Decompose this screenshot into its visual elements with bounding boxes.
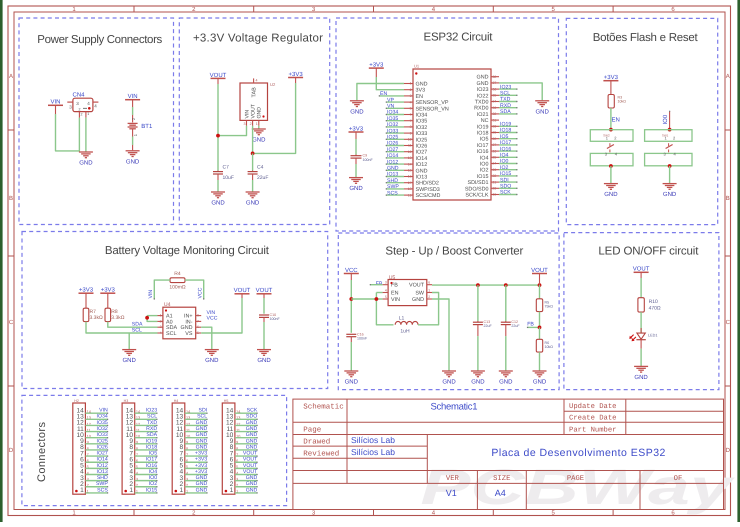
svg-text:GND: GND — [246, 444, 258, 450]
svg-text:GND: GND — [416, 168, 428, 174]
wire VOUT to R5 — [539, 285, 541, 299]
svg-text:D: D — [9, 447, 14, 454]
svg-text:Silícios Lab: Silícios Lab — [351, 447, 395, 457]
section box: Power Supply Connectors — [19, 18, 174, 225]
svg-text:GND: GND — [350, 108, 364, 115]
junction node SW1 bottom — [668, 164, 672, 168]
wire VIN to battery BT1 — [132, 100, 134, 107]
svg-text:EN: EN — [391, 291, 399, 297]
LED LED1 — [629, 328, 657, 349]
wire R4 right to VCC stub — [185, 280, 204, 299]
svg-text:IO34: IO34 — [387, 110, 398, 116]
wire C12 to ground — [505, 336, 507, 371]
svg-text:SWP: SWP — [96, 481, 108, 487]
wire +3V3 to ESP32 3V3 pin — [375, 68, 377, 77]
section box: Botoes Flash e Reset — [566, 18, 717, 224]
svg-text:SCS: SCS — [387, 190, 398, 196]
frame row ticks — [8, 130, 731, 386]
svg-text:35: 35 — [493, 94, 497, 98]
ground LED1 — [634, 366, 648, 381]
svg-text:H4: H4 — [174, 399, 179, 403]
svg-text:15: 15 — [408, 169, 412, 173]
svg-text:VER: VER — [446, 475, 460, 483]
svg-text:+3V3: +3V3 — [195, 463, 207, 469]
svg-text:IO2: IO2 — [480, 168, 489, 174]
svg-text:IO21: IO21 — [477, 112, 489, 118]
junction node EN at SW2 — [609, 128, 613, 132]
svg-text:3: 3 — [160, 325, 162, 329]
svg-text:VIN: VIN — [391, 297, 400, 303]
svg-text:TXD: TXD — [147, 420, 158, 426]
svg-text:IO19: IO19 — [477, 124, 489, 130]
svg-text:SCL: SCL — [147, 414, 157, 420]
svg-text:D: D — [726, 447, 731, 454]
svg-text:IO17: IO17 — [146, 457, 157, 463]
svg-text:H3: H3 — [124, 399, 129, 403]
svg-text:IO12: IO12 — [97, 463, 108, 469]
svg-text:GND: GND — [477, 81, 489, 87]
svg-text:IO2: IO2 — [149, 481, 157, 487]
wire VOUT to R10 — [640, 272, 642, 278]
net labels H2 — [96, 408, 108, 494]
resistor R3 — [608, 95, 626, 109]
wire A1/A0 strap — [147, 315, 157, 317]
svg-text:1: 1 — [160, 314, 162, 318]
svg-text:GND: GND — [663, 191, 677, 198]
wire +3V3 to resistor R3 — [610, 81, 612, 95]
svg-text:100nF: 100nF — [357, 337, 368, 341]
svg-text:IO0: IO0 — [662, 114, 669, 124]
svg-text:27: 27 — [493, 143, 497, 147]
resistor R10 — [638, 298, 661, 312]
svg-text:GND: GND — [257, 357, 271, 364]
svg-text:IO15: IO15 — [477, 174, 489, 180]
svg-text:SDO: SDO — [246, 414, 257, 420]
svg-text:GND: GND — [412, 297, 424, 303]
svg-text:LED1: LED1 — [648, 334, 658, 338]
ground below C9 — [349, 178, 363, 193]
svg-text:VIN: VIN — [148, 290, 154, 299]
capacitor C4 — [248, 165, 269, 182]
svg-text:SDI: SDI — [500, 177, 509, 183]
svg-text:3: 3 — [410, 94, 412, 98]
svg-text:SCS: SCS — [97, 487, 108, 493]
svg-text:21: 21 — [493, 180, 497, 184]
svg-text:IO13: IO13 — [97, 469, 108, 475]
svg-text:IO33: IO33 — [387, 128, 398, 134]
ground C12 — [499, 371, 513, 386]
wires H5 pins — [235, 413, 258, 493]
svg-text:1uH: 1uH — [400, 329, 410, 335]
svg-text:SHD: SHD — [387, 178, 398, 184]
svg-text:26: 26 — [493, 149, 497, 153]
svg-text:EN: EN — [612, 117, 620, 124]
wire +3V3 to C9 — [355, 132, 357, 139]
svg-text:RXD0: RXD0 — [474, 106, 488, 112]
frame column ticks — [134, 6, 613, 516]
wire C7 to GND — [217, 180, 219, 192]
svg-text:7: 7 — [197, 319, 199, 323]
junction node A0/A1 — [145, 316, 149, 320]
connector H3 — [122, 399, 140, 494]
svg-text:IO14: IO14 — [387, 153, 398, 159]
frame row letters — [9, 73, 731, 454]
power flag VOUT (C10) — [256, 287, 273, 294]
svg-text:SIZE: SIZE — [493, 475, 510, 483]
ground below CN4 — [79, 152, 93, 167]
ground below U2 — [252, 129, 266, 144]
svg-text:75kΩ: 75kΩ — [545, 305, 554, 309]
svg-text:GND: GND — [442, 379, 456, 386]
wire U2 VIN pin to VOUT rail — [218, 126, 247, 136]
svg-text:NC: NC — [481, 118, 489, 124]
ground U4 left — [122, 350, 136, 365]
svg-text:IO18: IO18 — [477, 131, 489, 137]
svg-text:18: 18 — [408, 187, 412, 191]
svg-text:2: 2 — [250, 122, 252, 126]
svg-text:VCC: VCC — [207, 316, 218, 322]
wire to C12 — [505, 285, 507, 321]
wire R6 to ground — [539, 352, 541, 371]
title block values — [351, 402, 666, 499]
ground ESP32 right — [535, 101, 549, 116]
svg-text:IO12: IO12 — [416, 162, 428, 168]
wire SW1 to GND — [669, 166, 671, 183]
junction node SW2 bottom — [609, 164, 613, 168]
resistor R8 — [105, 308, 125, 321]
svg-text:10kΩ: 10kΩ — [618, 100, 627, 104]
ground U5 — [442, 371, 456, 386]
svg-text:IO35: IO35 — [416, 119, 428, 125]
svg-text:IO4: IO4 — [149, 469, 157, 475]
title block labels — [303, 402, 682, 483]
frame column numbers — [72, 6, 675, 517]
svg-text:IO0: IO0 — [500, 159, 508, 165]
svg-text:GND: GND — [246, 487, 258, 493]
svg-text:SDO/SD0: SDO/SD0 — [465, 186, 489, 192]
power flag VIN (left) — [48, 99, 63, 106]
wire R3 to switch SW2 — [610, 108, 612, 130]
svg-text:Schematic: Schematic — [303, 402, 344, 411]
svg-text:IO23: IO23 — [146, 408, 157, 414]
wire junction down to C4 — [252, 153, 254, 170]
svg-text:GND: GND — [246, 200, 260, 207]
svg-text:GND: GND — [196, 438, 208, 444]
svg-text:7: 7 — [410, 119, 412, 123]
junction node C13 — [476, 283, 480, 287]
left green margin bar — [0, 0, 3, 522]
svg-text:U1: U1 — [414, 64, 420, 69]
junction node C12 — [504, 283, 508, 287]
svg-text:C7: C7 — [223, 165, 230, 171]
svg-text:IO0: IO0 — [480, 162, 489, 168]
ground below battery BT1 — [126, 151, 140, 166]
wire U4 VS pin to VOUT — [201, 298, 242, 333]
svg-text:Drawed: Drawed — [303, 437, 330, 446]
svg-text:28: 28 — [493, 137, 497, 141]
svg-text:IO33: IO33 — [416, 131, 428, 137]
svg-text:14: 14 — [408, 162, 412, 166]
svg-text:GND: GND — [205, 357, 219, 364]
svg-text:BT1: BT1 — [141, 123, 153, 130]
svg-text:IO25: IO25 — [416, 137, 428, 143]
boost chip U5 — [383, 275, 432, 306]
svg-text:Power Supply Connectors: Power Supply Connectors — [37, 34, 162, 46]
wire C10 to ground — [263, 322, 265, 349]
svg-text:IO5: IO5 — [480, 137, 489, 143]
svg-text:38: 38 — [493, 75, 497, 79]
power flag VOUT (boost output) — [531, 267, 548, 274]
svg-text:GND: GND — [246, 432, 258, 438]
svg-text:GND: GND — [349, 185, 363, 192]
svg-text:IO26: IO26 — [387, 141, 398, 147]
svg-text:C: C — [9, 319, 14, 326]
wire VIN to CN4 pin 2 — [55, 105, 57, 114]
battery BT1 — [128, 117, 153, 136]
svg-text:VOUT: VOUT — [243, 469, 258, 475]
svg-text:IO35: IO35 — [387, 116, 398, 122]
svg-text:22uF: 22uF — [511, 324, 520, 328]
svg-text:GND: GND — [257, 107, 263, 119]
svg-text:34: 34 — [493, 100, 497, 104]
svg-text:VOUT: VOUT — [409, 283, 425, 289]
svg-text:VOUT: VOUT — [243, 463, 258, 469]
svg-text:1: 1 — [230, 487, 234, 494]
svg-text:R10: R10 — [649, 299, 658, 305]
svg-text:GND: GND — [123, 357, 137, 364]
svg-text:16: 16 — [408, 175, 412, 179]
svg-text:3V3: 3V3 — [416, 88, 426, 94]
svg-text:CN4: CN4 — [72, 92, 85, 99]
svg-text:GND: GND — [477, 75, 489, 81]
capacitor C13 22uF — [473, 320, 493, 336]
svg-text:C: C — [726, 319, 731, 326]
capacitor C16 100nF (input) — [346, 332, 368, 342]
svg-text:IO0: IO0 — [149, 475, 157, 481]
svg-text:FB: FB — [527, 322, 534, 328]
svg-text:IO5: IO5 — [149, 451, 157, 457]
svg-text:Page: Page — [303, 427, 321, 435]
wires H2 pins — [85, 413, 108, 493]
svg-text:1: 1 — [87, 112, 89, 116]
svg-text:IO25: IO25 — [97, 438, 108, 444]
svg-text:IO32: IO32 — [416, 125, 428, 131]
svg-text:+3V3: +3V3 — [195, 457, 207, 463]
power flag VIN (battery) — [125, 93, 140, 100]
svg-text:SENSOR_VP: SENSOR_VP — [416, 100, 449, 106]
svg-text:VCC: VCC — [198, 287, 204, 298]
svg-text:SHD/SD2: SHD/SD2 — [416, 181, 439, 187]
svg-text:4: 4 — [256, 79, 258, 83]
svg-text:IO23: IO23 — [477, 87, 489, 93]
svg-text:PAGE: PAGE — [567, 475, 584, 483]
svg-text:100nF: 100nF — [363, 158, 374, 162]
svg-text:8: 8 — [410, 125, 412, 129]
power flag +3V3 (ESP32 top) — [369, 62, 384, 69]
pushbutton SW1 (Reset) — [645, 130, 692, 166]
svg-text:GND: GND — [196, 487, 208, 493]
resistor R7 — [83, 308, 103, 321]
svg-text:OF: OF — [674, 475, 683, 483]
svg-text:GND: GND — [604, 191, 618, 198]
wire LED1 to ground — [640, 349, 642, 366]
junction node on VOUT rail — [216, 134, 220, 138]
svg-text:SWP/SD3: SWP/SD3 — [416, 187, 440, 193]
svg-text:IO4: IO4 — [500, 153, 508, 159]
svg-text:22uF: 22uF — [484, 324, 493, 328]
wire +3V3 to R7 — [85, 293, 87, 308]
svg-text:IO5: IO5 — [500, 134, 508, 140]
svg-text:SENSOR_VN: SENSOR_VN — [416, 106, 449, 112]
svg-text:VOUT: VOUT — [243, 457, 258, 463]
section box: ESP32 Circuit — [336, 18, 559, 231]
power flag +3V3 (R8 pullup) — [100, 287, 115, 294]
svg-text:Botões Flash e Reset: Botões Flash e Reset — [593, 32, 699, 44]
svg-text:Update Date: Update Date — [569, 402, 616, 411]
ground R6 — [533, 371, 547, 386]
svg-text:2: 2 — [410, 88, 412, 92]
svg-text:3: 3 — [244, 122, 246, 126]
svg-text:3.3kΩ: 3.3kΩ — [111, 315, 124, 321]
svg-text:GND: GND — [196, 481, 208, 487]
svg-text:GND: GND — [196, 420, 208, 426]
svg-text:4: 4 — [385, 289, 387, 293]
svg-text:IO15: IO15 — [146, 487, 157, 493]
svg-text:2: 2 — [160, 319, 162, 323]
svg-text:IO14: IO14 — [97, 457, 108, 463]
svg-text:U2: U2 — [270, 82, 276, 87]
svg-text:37: 37 — [493, 81, 497, 85]
svg-text:IO26: IO26 — [97, 444, 108, 450]
svg-text:A: A — [726, 73, 730, 80]
svg-text:3: 3 — [385, 281, 387, 285]
svg-text:Step - Up / Boost Converter: Step - Up / Boost Converter — [385, 245, 523, 257]
svg-text:IO17: IO17 — [500, 140, 511, 146]
svg-text:IO25: IO25 — [387, 135, 398, 141]
svg-text:IO13: IO13 — [387, 172, 398, 178]
svg-text:Silícios Lab: Silícios Lab — [351, 435, 395, 445]
wire battery BT1 to GND — [132, 129, 134, 137]
svg-text:IO23: IO23 — [500, 84, 511, 90]
wire VCC junction to U5 VIN/EN — [351, 298, 376, 300]
svg-text:A: A — [9, 73, 13, 80]
svg-text:1: 1 — [80, 487, 84, 494]
svg-text:2: 2 — [79, 107, 81, 111]
svg-text:IO33: IO33 — [97, 432, 108, 438]
svg-text:Connectors: Connectors — [36, 422, 48, 483]
svg-text:Battery Voltage Monitoring Cir: Battery Voltage Monitoring Circuit — [105, 245, 270, 257]
ground C16 — [344, 371, 358, 386]
ground ESP32 left — [350, 101, 364, 116]
svg-text:IO16: IO16 — [477, 149, 489, 155]
svg-text:17: 17 — [408, 181, 412, 185]
svg-text:GND: GND — [246, 475, 258, 481]
ground C13 — [471, 371, 485, 386]
svg-text:IO34: IO34 — [416, 113, 428, 119]
svg-text:Create Date: Create Date — [569, 415, 616, 423]
svg-text:PCBWay: PCBWay — [420, 459, 734, 515]
svg-text:IO18: IO18 — [146, 444, 157, 450]
svg-text:GND: GND — [416, 82, 428, 88]
svg-text:VP: VP — [387, 97, 394, 103]
connector CN4 — [67, 92, 98, 118]
pushbutton SW2 (Flash) — [590, 130, 633, 166]
svg-text:2: 2 — [81, 113, 83, 117]
svg-text:IO35: IO35 — [97, 420, 108, 426]
section box: Battery Voltage Monitoring Circuit — [22, 232, 328, 389]
svg-text:SWP: SWP — [387, 184, 399, 190]
svg-text:11: 11 — [408, 144, 412, 148]
svg-text:IO22: IO22 — [477, 93, 489, 99]
svg-text:SDA: SDA — [500, 109, 511, 115]
svg-text:A4: A4 — [495, 488, 506, 498]
svg-text:8: 8 — [197, 314, 199, 318]
svg-text:SCS/CMD: SCS/CMD — [416, 193, 441, 199]
svg-text:GND: GND — [196, 432, 208, 438]
svg-text:VIN: VIN — [244, 110, 250, 119]
svg-text:23: 23 — [493, 168, 497, 172]
junction node C4 branch — [251, 152, 255, 156]
svg-text:2: 2 — [428, 295, 430, 299]
wire R5 to FB node — [539, 312, 541, 328]
section box: Connectors — [22, 395, 287, 505]
svg-text:GND: GND — [471, 379, 485, 386]
svg-text:RXD: RXD — [146, 426, 157, 432]
svg-text:SDO: SDO — [500, 184, 511, 190]
svg-text:SHD: SHD — [97, 475, 108, 481]
net labels H4 — [195, 408, 208, 494]
svg-text:SCL: SCL — [132, 327, 142, 333]
ground below C4 — [246, 192, 260, 207]
power flag VOUT (regulator input) — [210, 72, 227, 79]
junction node EN/VIN tie — [375, 297, 379, 301]
svg-text:6: 6 — [428, 281, 430, 285]
svg-text:470Ω: 470Ω — [649, 306, 661, 312]
svg-text:32: 32 — [493, 112, 497, 116]
wire R4 left to VIN stub — [154, 280, 170, 299]
svg-text:IO27: IO27 — [387, 147, 398, 153]
svg-text:IO13: IO13 — [416, 175, 428, 181]
capacitor C7 — [213, 165, 234, 182]
svg-text:RXD: RXD — [500, 103, 511, 109]
connector H4 — [172, 399, 190, 494]
svg-text:IO19: IO19 — [146, 438, 157, 444]
svg-text:EN: EN — [416, 94, 424, 100]
svg-text:GND: GND — [246, 481, 258, 487]
svg-text:GND: GND — [246, 420, 258, 426]
power flag +3V3 (regulator output) — [288, 71, 303, 78]
svg-text:V1: V1 — [446, 488, 457, 498]
net labels H3 — [146, 408, 158, 494]
svg-text:L1: L1 — [399, 316, 405, 322]
svg-text:GND: GND — [79, 160, 93, 167]
svg-text:SCK: SCK — [247, 408, 258, 414]
svg-text:SCL: SCL — [197, 414, 207, 420]
power flag VOUT (U4 supply) — [234, 287, 251, 294]
svg-text:H2: H2 — [74, 399, 79, 403]
svg-text:IO16: IO16 — [146, 463, 157, 469]
svg-text:GND: GND — [196, 426, 208, 432]
svg-text:3.3kΩ: 3.3kΩ — [90, 315, 103, 321]
right green margin bar — [737, 0, 740, 522]
junction node VOUT flag — [538, 283, 542, 287]
wire R10 to LED1 — [640, 312, 642, 333]
svg-text:IO15: IO15 — [500, 171, 511, 177]
wire SCL row to R7 and GND branch — [86, 322, 158, 333]
svg-text:4: 4 — [410, 100, 412, 104]
svg-text:ESP32 Circuit: ESP32 Circuit — [424, 32, 494, 44]
wire FB node to R6 — [539, 327, 541, 339]
